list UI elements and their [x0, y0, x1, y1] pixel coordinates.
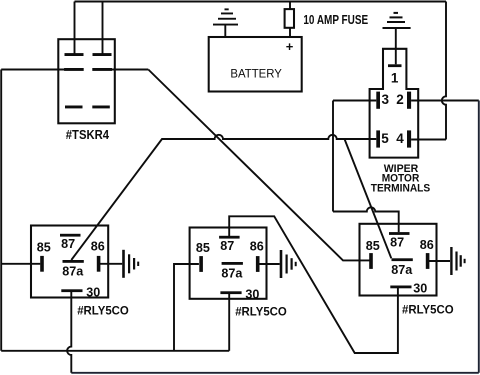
- svg-text:30: 30: [86, 286, 100, 300]
- wire W2 to relay3 87 (hop over B): [333, 207, 399, 232]
- wire top bus B+: [75, 1, 447, 3]
- relay K2 pins: [199, 236, 296, 294]
- relay K1 box #RLY5CO: [31, 226, 108, 298]
- K1 ground bar 1: [122, 250, 125, 278]
- relay K1 pins: [40, 234, 139, 292]
- wire wiper pin4 to V3: [411, 139, 446, 141]
- switch contact row1 right: [93, 53, 112, 56]
- wire relay1 85 feed: [1, 263, 40, 265]
- wire fuse stem top: [289, 2, 291, 10]
- K1 ground bar 4: [137, 262, 139, 266]
- wire N1 lower bus: [1, 350, 229, 352]
- svg-text:5: 5: [381, 131, 389, 146]
- battery ground bar 1: [213, 24, 238, 26]
- switch contact row2 left: [64, 68, 84, 71]
- svg-text:85: 85: [196, 241, 210, 255]
- wire wiper ground stem: [395, 28, 397, 64]
- svg-text:87: 87: [220, 239, 234, 253]
- wiper ground bar 2: [387, 21, 405, 23]
- relay K3 labels: [366, 235, 454, 316]
- wire V3 right feed to pin4 (hop over pin2 wire): [442, 2, 446, 140]
- K2 pin 30 bar: [220, 291, 241, 294]
- wire diagonal B W1 to relay3 87a: [345, 139, 392, 258]
- K2 pin 85 bar: [199, 256, 203, 272]
- wire battery ground stem: [224, 25, 226, 38]
- svg-text:87: 87: [61, 237, 75, 251]
- relay K2 box #RLY5CO: [190, 228, 267, 299]
- svg-text:86: 86: [250, 240, 264, 254]
- fuse F1 body: [285, 9, 294, 28]
- svg-text:+: +: [286, 39, 294, 54]
- svg-text:87a: 87a: [391, 263, 413, 277]
- battery BT1 box: [209, 37, 302, 92]
- svg-text:86: 86: [91, 240, 105, 254]
- K3 ground bar 3: [460, 255, 462, 267]
- svg-text:3: 3: [382, 92, 390, 107]
- relay K3 box #RLY5CO: [360, 224, 437, 296]
- K1 pin 85 bar: [40, 256, 44, 272]
- svg-text:85: 85: [366, 239, 380, 253]
- svg-text:TERMINALS: TERMINALS: [371, 183, 430, 195]
- K2 ground bar 2: [286, 255, 288, 274]
- wire switch row2 right: [112, 69, 149, 71]
- battery ground bar 3: [221, 13, 233, 15]
- switch contact row1 left: [65, 53, 84, 56]
- K3 pin 85 bar: [369, 253, 373, 269]
- wire V2 wiper pin3 drop: [332, 101, 334, 212]
- K3 pin 87 bar: [389, 232, 410, 235]
- wiper pin 3 bar: [376, 92, 380, 109]
- wiper ground bar 3: [390, 16, 403, 18]
- battery ground bar 4: [225, 8, 229, 10]
- svg-text:85: 85: [37, 241, 51, 255]
- wire right bus: [478, 101, 480, 373]
- svg-text:86: 86: [420, 238, 434, 252]
- K2 pin 86 bar: [256, 256, 260, 272]
- wire relay2 86 to ground: [258, 263, 280, 265]
- K2 ground bar 3: [291, 258, 293, 270]
- wiper ground bar 1: [383, 27, 411, 29]
- relay K2 labels: [196, 239, 287, 318]
- wire relay2 30 drop: [228, 294, 230, 351]
- K2 ground bar 1: [280, 250, 283, 278]
- switch contact row2 right: [92, 68, 112, 71]
- wire relay3 86 to ground: [428, 260, 451, 262]
- K1 pin 30 bar: [61, 289, 82, 292]
- svg-text:#RLY5CO: #RLY5CO: [402, 303, 454, 317]
- wire switch row2 left: [1, 69, 64, 71]
- K2 ground bar 4: [295, 262, 297, 266]
- wiper pin 1 bar: [388, 64, 402, 67]
- wire left bus: [0, 70, 2, 351]
- svg-text:2: 2: [396, 92, 404, 107]
- svg-text:30: 30: [413, 282, 427, 296]
- wiper pin 4 bar: [407, 130, 411, 147]
- svg-text:#RLY5CO: #RLY5CO: [235, 305, 287, 319]
- wire switch pin right drop: [102, 2, 104, 55]
- wire wiper pin3: [333, 100, 376, 102]
- svg-text:87a: 87a: [221, 267, 243, 281]
- K3 pin 86 bar: [426, 253, 430, 269]
- switch #TSKR4 box: [58, 39, 115, 123]
- K3 pin 87a bar: [392, 258, 413, 261]
- wiper pin 5 bar: [376, 130, 380, 147]
- switch contact row3 left: [65, 106, 83, 109]
- wiper pin 2 bar: [407, 92, 411, 109]
- wiper ground bar 4: [394, 12, 399, 14]
- wire switch pin left drop: [74, 2, 76, 55]
- K3 pin 30 bar: [390, 286, 411, 289]
- switch contact row3 right: [92, 106, 110, 109]
- wire diagonal A switch to relay3 85: [148, 70, 371, 261]
- K1 pin 87 bar: [60, 234, 81, 237]
- wiper motor connector outline: [370, 49, 419, 158]
- K1 pin 87a bar: [63, 260, 84, 263]
- relay K3 pins: [369, 232, 465, 288]
- K2 pin 87a bar: [222, 262, 243, 265]
- svg-text:87: 87: [390, 235, 404, 249]
- K1 ground bar 3: [133, 258, 135, 270]
- svg-text:10 AMP FUSE: 10 AMP FUSE: [303, 13, 368, 27]
- wire W1: relay1 87a diagonal, horizontal to wiper pin5 (hops over A and V2): [71, 135, 376, 260]
- svg-text:#TSKR4: #TSKR4: [66, 127, 110, 142]
- relay K1 labels: [37, 237, 129, 317]
- svg-text:#RLY5CO: #RLY5CO: [77, 304, 129, 318]
- svg-text:30: 30: [245, 288, 259, 302]
- K3 ground bar 2: [455, 252, 457, 271]
- battery ground bar 2: [218, 18, 236, 20]
- K2 pin 87 bar: [219, 236, 240, 239]
- wire relay1 30 drop (hop over N1): [67, 292, 71, 373]
- wire N2 bottom bus: [71, 372, 479, 374]
- svg-text:BATTERY: BATTERY: [230, 69, 282, 81]
- wire relay2 87 to relay3 30 (diagonal D): [229, 216, 398, 353]
- svg-text:87a: 87a: [62, 265, 84, 279]
- svg-text:1: 1: [391, 70, 399, 85]
- K1 pin 86 bar: [97, 256, 101, 272]
- K3 ground bar 1: [450, 247, 452, 275]
- wire fuse stem bottom: [289, 28, 291, 37]
- wire relay2 85 to N1: [174, 264, 199, 351]
- K1 ground bar 2: [128, 254, 130, 273]
- svg-text:4: 4: [396, 131, 404, 146]
- K3 ground bar 4: [464, 259, 466, 263]
- wire wiper pin2 to right bus: [411, 100, 479, 102]
- wire relay1 86 to ground: [98, 263, 122, 265]
